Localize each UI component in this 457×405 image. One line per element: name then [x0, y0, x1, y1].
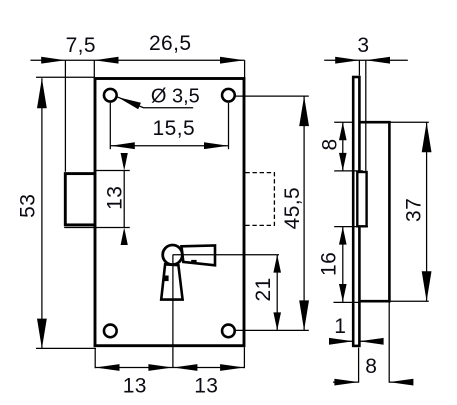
extension strip bottom down: [358, 348, 360, 383]
key vertical centerline: [172, 255, 174, 368]
svg-text:8: 8: [365, 355, 377, 378]
extension line plate bottom for 53: [36, 347, 96, 349]
arrow 21 top: [273, 255, 281, 273]
dimension line 13 latch: [123, 171, 125, 228]
key shaft notch: [164, 276, 168, 282]
extension line plate left edge top: [93, 60, 95, 77]
svg-text:13: 13: [123, 375, 147, 398]
side dimension line 3: [324, 59, 408, 61]
svg-text:16: 16: [318, 252, 341, 276]
svg-text:Ø 3,5: Ø 3,5: [151, 86, 200, 108]
extension case bottom left: [334, 301, 360, 303]
arrow 16 top: [339, 227, 347, 245]
arrow 53 bottom: [37, 319, 47, 349]
extension top hole right out: [236, 95, 309, 97]
dimension line 15,5: [110, 145, 228, 147]
arrow 8 side bottom: [339, 153, 347, 171]
svg-text:26,5: 26,5: [149, 32, 191, 55]
arrow bottom 13 mid-left: [148, 364, 172, 371]
arrow 3 left outside: [335, 57, 359, 64]
screw hole bottom-right: [222, 325, 235, 338]
svg-text:13: 13: [104, 186, 127, 210]
extension case back down: [388, 303, 390, 383]
extension hole right down: [228, 103, 230, 149]
extension case top left: [334, 121, 353, 123]
thin dimension linework: [31, 60, 429, 383]
extension strip right top: [358, 60, 360, 75]
arrow 37 top: [422, 122, 432, 152]
arrow 53 top: [37, 78, 47, 108]
svg-text:45,5: 45,5: [281, 187, 304, 229]
arrow 16 bottom: [339, 284, 347, 302]
key horizontal centerline: [173, 254, 279, 256]
dimension line 21: [276, 255, 278, 331]
latch protrusion left: [65, 174, 95, 225]
svg-text:37: 37: [403, 198, 426, 222]
screw hole bottom-left: [104, 325, 117, 338]
svg-text:53: 53: [17, 194, 40, 218]
extension line plate top for 53: [36, 76, 94, 78]
extension bolt housing top left: [334, 170, 363, 172]
arrow 1 right outside: [359, 338, 383, 345]
screw hole top-left: [104, 89, 117, 102]
extension case top right: [389, 121, 428, 123]
extension plate left bottom: [94, 349, 96, 369]
lock plate outline front view: [95, 79, 244, 346]
key bit flag: [182, 245, 216, 265]
arrow bottom 13 right: [220, 364, 244, 371]
arrow 45,5 bottom: [299, 300, 309, 330]
dimension line 1 right part: [359, 340, 382, 342]
screw hole top-right: [222, 89, 235, 102]
key shaft: [161, 264, 182, 299]
key bit notch: [191, 260, 196, 264]
arrow bottom 8 right outside: [389, 379, 413, 386]
svg-text:8: 8: [318, 138, 341, 150]
extension case bottom right: [389, 300, 428, 302]
extension bolt housing bottom left: [334, 226, 368, 228]
svg-text:7,5: 7,5: [66, 34, 96, 57]
side view face plate strip: [353, 77, 359, 346]
side view bolt housing box: [357, 172, 366, 226]
bottom dimension line 13 13: [95, 367, 244, 369]
extension bottom hole right out: [236, 329, 309, 331]
arrow bottom 13 mid-right: [173, 364, 197, 371]
side view lock case: [359, 122, 389, 301]
arrow 7,5 left outside: [41, 57, 65, 64]
extension latch top: [95, 170, 130, 172]
extension line plate right edge top: [244, 60, 246, 77]
top dimension line front: [31, 59, 245, 61]
svg-text:1: 1: [334, 315, 346, 338]
arrow 8 side top: [339, 122, 347, 140]
dimension line 53: [41, 78, 43, 348]
dimension line 16 side: [342, 227, 344, 302]
arrow 21 bottom: [273, 312, 281, 330]
svg-text:3: 3: [357, 34, 369, 57]
extension bolt housing right top: [365, 60, 367, 171]
svg-text:13: 13: [194, 375, 218, 398]
arrow leader dia 3,5: [118, 97, 141, 109]
leader line dia 3,5: [118, 97, 194, 108]
arrow 37 bottom: [422, 271, 432, 301]
arrow bottom 8 left outside: [334, 379, 358, 386]
arrow 3 right outside: [366, 57, 390, 64]
extension hole left down: [109, 103, 111, 149]
arrow 26,5 left / 7,5 right: [94, 57, 118, 64]
arrow 1 left outside: [329, 338, 353, 345]
key head circle: [163, 245, 183, 265]
arrow bottom 13 left: [95, 364, 119, 371]
dimension line 1 left part: [330, 340, 353, 342]
extension plate right bottom: [243, 347, 245, 368]
svg-text:21: 21: [252, 277, 275, 301]
extension latch bottom: [64, 227, 130, 229]
arrow 26,5 right: [220, 57, 244, 64]
arrow 13 latch top: [121, 153, 128, 171]
extension line latch left edge: [64, 60, 66, 172]
arrow 15,5 left: [111, 142, 135, 149]
svg-text:15,5: 15,5: [153, 117, 195, 140]
bottom dimension line 8 right part: [389, 381, 412, 383]
bottom dimension line 8 left part: [333, 381, 359, 383]
arrow 13 latch bottom: [121, 228, 128, 246]
arrow 45,5 top: [299, 96, 309, 126]
arrow 15,5 right: [204, 142, 228, 149]
dimension line 8 side: [342, 122, 344, 171]
dimension line 45,5: [303, 96, 305, 330]
dimension line 37 side: [426, 122, 428, 301]
dashed hidden bolt box: [245, 173, 274, 226]
